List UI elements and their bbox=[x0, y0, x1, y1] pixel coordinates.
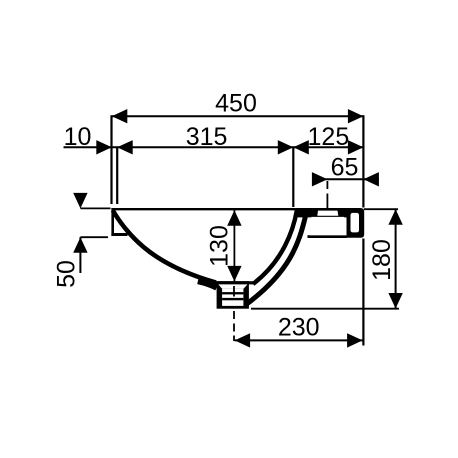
deck recess trapezoid (white) bbox=[309, 217, 346, 235]
drain centerline dash inside body bbox=[233, 286, 235, 297]
svg-text:180: 180 bbox=[368, 239, 396, 281]
bowl right outer curve bbox=[246, 217, 305, 305]
bowl-to-drain junction left bbox=[198, 281, 217, 288]
svg-text:125: 125 bbox=[308, 123, 350, 151]
left rim bottom edge bbox=[111, 233, 127, 236]
dimension 50 bbox=[53, 193, 111, 288]
dimension 130 bbox=[206, 210, 242, 281]
bowl right inner curve bbox=[253, 210, 297, 284]
dimension 180 bbox=[251, 209, 403, 309]
dimension 65 bbox=[312, 154, 379, 187]
rim top surface line bbox=[111, 208, 300, 210]
bowl inner curve left bbox=[113, 211, 216, 283]
drain thread line 1 bbox=[222, 292, 243, 294]
extension line bowl left bbox=[116, 146, 118, 204]
tap hole notch (white) bbox=[317, 211, 338, 216]
deck recess bottom bar bbox=[308, 235, 347, 238]
extension line right edge upper bbox=[362, 115, 364, 207]
overflow slot (white) bbox=[351, 213, 360, 233]
dimension 230 bbox=[235, 313, 363, 347]
svg-text:130: 130 bbox=[206, 225, 234, 267]
drain body interior (white) bbox=[222, 289, 243, 306]
svg-text:450: 450 bbox=[215, 89, 257, 117]
svg-text:65: 65 bbox=[331, 154, 359, 182]
tap hole centerline (dashed) bbox=[326, 181, 328, 229]
drain centerline (dashed) bbox=[233, 311, 235, 341]
svg-text:315: 315 bbox=[186, 123, 228, 151]
svg-text:50: 50 bbox=[53, 260, 81, 288]
drain flange interior (white) bbox=[218, 284, 247, 288]
svg-text:230: 230 bbox=[278, 313, 320, 341]
deck bar and right apron bbox=[296, 208, 364, 238]
left rim outer vertical edge bbox=[111, 208, 114, 236]
drain body base (black) bbox=[217, 281, 249, 309]
drain flange top bar bbox=[213, 281, 255, 284]
dimension 450 line bbox=[112, 89, 364, 123]
extension line right edge lower bbox=[362, 239, 364, 346]
drain thread line 2 bbox=[222, 298, 243, 300]
svg-text:10: 10 bbox=[64, 123, 92, 151]
extension line 315/125 boundary bbox=[292, 146, 294, 207]
dimension 10/315/125 shared line bbox=[64, 123, 364, 155]
extension line left edge bbox=[110, 115, 112, 204]
